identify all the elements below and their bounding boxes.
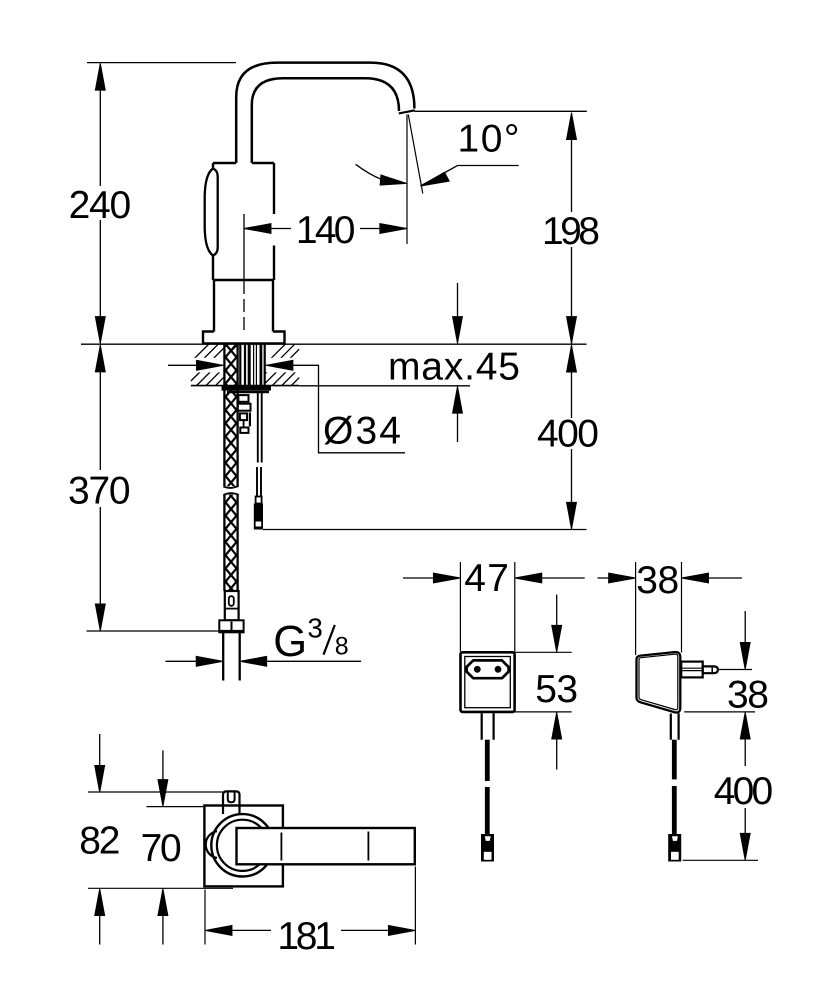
psu cable lower bbox=[485, 787, 490, 834]
angle arc indicator bbox=[356, 164, 392, 182]
svg-text:53: 53 bbox=[535, 668, 578, 711]
check valve fitting below nut bbox=[238, 395, 251, 433]
dimension 400 line (faucet) bbox=[571, 346, 573, 529]
hole diameter leader arrows bbox=[168, 364, 197, 366]
dimension 240 line bbox=[99, 64, 101, 343]
body lower section edges bbox=[214, 280, 273, 332]
extension lines 53 bbox=[515, 652, 572, 712]
euro socket outline bbox=[467, 660, 509, 678]
dimension max.45 arrows bbox=[457, 283, 459, 317]
extension line flange bottom bbox=[88, 887, 233, 889]
dimension 370 line bbox=[99, 346, 101, 631]
svg-text:400: 400 bbox=[714, 770, 773, 813]
svg-text:370: 370 bbox=[68, 470, 131, 513]
extension line plug bottom bbox=[684, 711, 755, 713]
svg-text:400: 400 bbox=[537, 413, 599, 456]
svg-text:10°: 10° bbox=[458, 118, 520, 161]
svg-text:Ø34: Ø34 bbox=[323, 410, 401, 453]
power supply box outer bbox=[461, 652, 515, 712]
hose tail pipe bbox=[223, 633, 240, 681]
socket pin holes bbox=[474, 666, 481, 673]
hose nut G3/8 bbox=[219, 620, 243, 632]
extension lines 47 bbox=[460, 562, 514, 652]
shared arrow at plug bottom level bbox=[740, 712, 750, 739]
base plate bottom edge bbox=[203, 342, 285, 344]
svg-text:240: 240 bbox=[69, 184, 132, 227]
plug cable connector bbox=[668, 834, 681, 862]
extension line sensor cable end bbox=[263, 529, 587, 531]
dimension 400 right line bbox=[744, 739, 746, 834]
svg-text:G: G bbox=[273, 618, 307, 666]
faucet body left edge bbox=[212, 163, 214, 280]
dimension 53 arrows bbox=[556, 595, 558, 626]
svg-text:70: 70 bbox=[141, 827, 182, 870]
sensor cable lower run bbox=[257, 467, 261, 497]
plug neck bbox=[671, 713, 679, 740]
threaded shank tubes in hole bbox=[239, 345, 241, 386]
plug cable upper bbox=[672, 740, 677, 780]
faucet body right edge (gap at dimension line) bbox=[273, 163, 275, 280]
extension line pin level bbox=[718, 669, 752, 671]
10 degree tilted line bbox=[408, 115, 423, 194]
plug pin collar bbox=[681, 662, 703, 678]
svg-text:8: 8 bbox=[335, 633, 349, 661]
psu cable connector bbox=[481, 834, 494, 862]
handle hub inner circle bbox=[217, 820, 268, 871]
plug cable lower bbox=[672, 786, 677, 834]
body lower section separation line bbox=[213, 279, 274, 281]
countertop bottom edge bbox=[191, 385, 299, 387]
wall plug body outer bbox=[637, 652, 681, 712]
svg-text:47: 47 bbox=[464, 557, 509, 600]
faucet body top edge bbox=[213, 162, 274, 164]
countertop hatching right bbox=[266, 344, 300, 385]
extension line from spout tip (vertical) bbox=[406, 115, 408, 245]
svg-text:198: 198 bbox=[542, 210, 600, 253]
sensor cable connector bbox=[256, 497, 262, 504]
sensor cable upper run bbox=[258, 393, 262, 463]
dimension 70 arrows bbox=[162, 750, 164, 780]
extension line cable end right bbox=[683, 859, 758, 861]
dimension 140 line bbox=[244, 228, 407, 230]
extension line outlet level bbox=[415, 110, 587, 112]
cartridge bulge arc bbox=[206, 831, 217, 858]
psu cable upper bbox=[485, 740, 490, 781]
svg-text:38: 38 bbox=[636, 559, 679, 602]
psu neck bbox=[482, 713, 494, 740]
temperature limiter tab bbox=[223, 791, 240, 814]
sensor window capsule bbox=[205, 169, 218, 256]
dimension 198 line bbox=[571, 114, 573, 344]
base plate bbox=[203, 332, 285, 344]
handle escutcheon square flange bbox=[204, 806, 283, 887]
mounting surface line bbox=[81, 343, 587, 345]
svg-text:140: 140 bbox=[296, 209, 356, 252]
diameter 34 label box bbox=[319, 365, 406, 453]
plug pin bbox=[703, 666, 718, 673]
faucet spout inner contour bbox=[252, 78, 399, 163]
extension lines 181 bbox=[205, 867, 415, 945]
dimension 38 top arrows bbox=[598, 577, 610, 579]
svg-text:82: 82 bbox=[79, 820, 120, 863]
extension line tab top bbox=[88, 791, 223, 793]
extension line countertop bottom bbox=[299, 385, 470, 387]
10 degree leader line bbox=[421, 166, 519, 187]
body centerline bbox=[243, 214, 245, 280]
braided supply hose lower part bbox=[226, 494, 237, 591]
faucet spout outer contour bbox=[236, 63, 414, 163]
spout outlet tip bbox=[399, 110, 415, 113]
extension line hose end bbox=[87, 630, 220, 632]
svg-text:181: 181 bbox=[277, 915, 336, 958]
hose ferrule bbox=[225, 591, 239, 620]
dimension 82 arrows bbox=[99, 734, 101, 766]
braided supply hose upper part bbox=[226, 345, 237, 487]
svg-text:38: 38 bbox=[727, 674, 769, 717]
white gap band for leader line through hatching bbox=[189, 358, 300, 373]
dimension 181 line bbox=[232, 929, 388, 931]
mounting backnut bbox=[222, 386, 272, 391]
countertop hatching left bbox=[191, 344, 237, 385]
wall plug body inner line bbox=[639, 654, 678, 710]
lever arm tick lines bbox=[281, 832, 368, 861]
extension line spout top bbox=[87, 62, 236, 64]
svg-text:max.45: max.45 bbox=[388, 345, 520, 388]
lever arm bbox=[237, 828, 415, 864]
dimension 38 right arrows bbox=[744, 611, 746, 643]
handle hub outer circle bbox=[211, 814, 273, 876]
dimension 47 arrows bbox=[403, 577, 434, 579]
svg-text:3: 3 bbox=[308, 612, 323, 643]
extension lines 38 top bbox=[636, 562, 682, 655]
extension line flange top bbox=[147, 806, 204, 808]
power supply box inner line bbox=[465, 657, 511, 708]
dimension G3/8 arrows bbox=[166, 660, 197, 662]
